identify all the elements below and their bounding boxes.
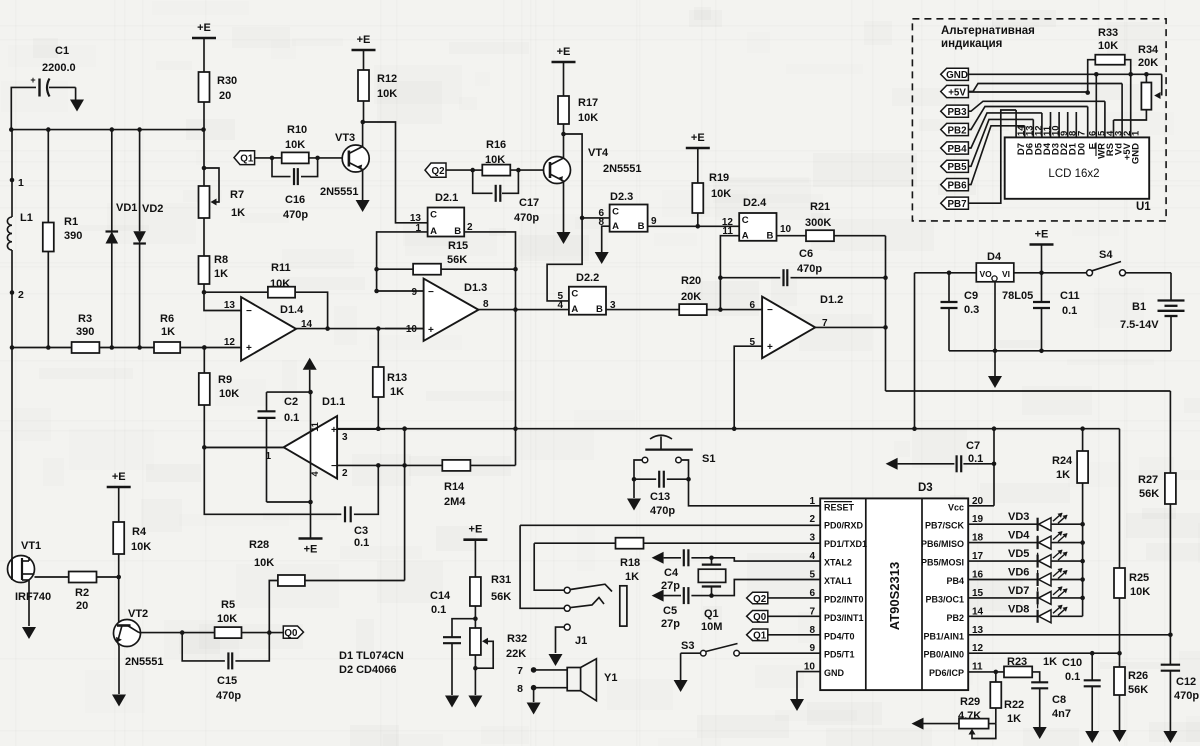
svg-text:10M: 10M xyxy=(701,621,722,633)
svg-text:U1: U1 xyxy=(1136,201,1151,213)
svg-text:D2.1: D2.1 xyxy=(435,192,458,204)
svg-text:56K: 56K xyxy=(1139,488,1159,500)
svg-text:R27: R27 xyxy=(1138,474,1158,486)
svg-text:10K: 10K xyxy=(254,557,274,569)
svg-text:J1: J1 xyxy=(575,635,587,647)
svg-text:R23: R23 xyxy=(1007,656,1027,668)
svg-text:R15: R15 xyxy=(448,240,468,252)
svg-text:10K: 10K xyxy=(377,88,397,100)
svg-text:R10: R10 xyxy=(287,124,307,136)
svg-text:D3: D3 xyxy=(918,482,933,494)
svg-text:XTAL1: XTAL1 xyxy=(824,576,852,586)
svg-text:1K: 1K xyxy=(625,571,639,583)
svg-text:C3: C3 xyxy=(354,525,368,537)
svg-text:PD4/T0: PD4/T0 xyxy=(824,631,855,641)
svg-text:R25: R25 xyxy=(1129,572,1149,584)
svg-text:C: C xyxy=(612,207,619,218)
svg-text:R2: R2 xyxy=(75,587,89,599)
svg-text:PB3/OC1: PB3/OC1 xyxy=(925,594,964,604)
svg-text:D0: D0 xyxy=(1076,143,1087,155)
svg-text:4.7K: 4.7K xyxy=(958,710,981,722)
svg-text:2200.0: 2200.0 xyxy=(42,62,76,74)
svg-text:B: B xyxy=(638,221,645,232)
svg-text:LCD 16x2: LCD 16x2 xyxy=(1048,168,1099,180)
svg-text:PD2/INT0: PD2/INT0 xyxy=(824,594,864,604)
svg-text:13: 13 xyxy=(224,300,236,311)
svg-text:PB2: PB2 xyxy=(948,125,968,136)
svg-text:0.1: 0.1 xyxy=(1062,305,1077,317)
svg-text:2N5551: 2N5551 xyxy=(320,186,359,198)
svg-text:10: 10 xyxy=(780,224,792,235)
svg-text:10K: 10K xyxy=(711,188,731,200)
svg-text:A: A xyxy=(612,221,619,232)
svg-text:27p: 27p xyxy=(661,618,680,630)
svg-text:+: + xyxy=(331,425,337,436)
svg-text:Q1: Q1 xyxy=(753,631,767,642)
svg-text:1: 1 xyxy=(809,496,815,507)
svg-text:GND: GND xyxy=(1131,143,1142,164)
svg-text:PB7: PB7 xyxy=(948,199,968,210)
svg-text:12: 12 xyxy=(224,337,236,348)
svg-text:10K: 10K xyxy=(578,112,598,124)
svg-text:+: + xyxy=(428,325,434,336)
svg-text:R30: R30 xyxy=(217,75,237,87)
svg-text:300K: 300K xyxy=(805,217,831,229)
svg-text:PB4: PB4 xyxy=(946,576,964,586)
svg-text:10K: 10K xyxy=(1098,40,1118,52)
svg-text:1K: 1K xyxy=(1043,656,1057,668)
svg-text:4: 4 xyxy=(310,471,320,476)
svg-text:7: 7 xyxy=(517,665,523,677)
svg-text:+5V: +5V xyxy=(948,87,966,98)
svg-text:20: 20 xyxy=(76,600,88,612)
svg-text:1: 1 xyxy=(1131,130,1142,136)
svg-text:Q1: Q1 xyxy=(704,608,719,620)
svg-text:1K: 1K xyxy=(214,268,228,280)
svg-text:PB2: PB2 xyxy=(946,613,964,623)
svg-text:C10: C10 xyxy=(1062,657,1082,669)
svg-text:L1: L1 xyxy=(20,212,33,224)
svg-text:0.1: 0.1 xyxy=(1065,671,1080,683)
svg-text:C15: C15 xyxy=(217,675,237,687)
svg-text:VD6: VD6 xyxy=(1008,567,1029,579)
svg-text:VD4: VD4 xyxy=(1008,530,1030,542)
svg-text:IRF740: IRF740 xyxy=(15,591,51,603)
svg-text:8: 8 xyxy=(517,683,523,695)
svg-text:B: B xyxy=(454,226,461,237)
svg-text:10K: 10K xyxy=(219,388,239,400)
svg-text:R6: R6 xyxy=(160,313,174,325)
svg-text:1: 1 xyxy=(18,177,24,189)
svg-text:RESET: RESET xyxy=(824,502,855,512)
svg-text:PB6: PB6 xyxy=(948,180,968,191)
svg-text:D2.2: D2.2 xyxy=(576,272,599,284)
svg-text:8: 8 xyxy=(598,217,604,228)
svg-text:PD0/RXD: PD0/RXD xyxy=(824,521,864,531)
svg-text:20K: 20K xyxy=(1138,57,1158,69)
svg-text:7: 7 xyxy=(1076,131,1087,136)
svg-text:C9: C9 xyxy=(964,290,978,302)
svg-text:R34: R34 xyxy=(1138,44,1159,56)
svg-text:−: − xyxy=(246,306,252,317)
svg-text:11: 11 xyxy=(972,662,983,673)
svg-text:PB7/SCK: PB7/SCK xyxy=(925,521,965,531)
svg-text:B: B xyxy=(596,304,603,315)
svg-text:VD5: VD5 xyxy=(1008,548,1029,560)
svg-text:20: 20 xyxy=(219,90,231,102)
svg-text:56K: 56K xyxy=(447,254,467,266)
svg-text:2: 2 xyxy=(809,514,815,525)
svg-text:R26: R26 xyxy=(1128,670,1148,682)
svg-text:+E: +E xyxy=(197,22,211,34)
svg-text:D2.4: D2.4 xyxy=(743,197,767,209)
svg-text:0.3: 0.3 xyxy=(964,304,979,316)
svg-text:PB5: PB5 xyxy=(948,162,968,173)
svg-text:56K: 56K xyxy=(491,591,511,603)
svg-text:7.5-14V: 7.5-14V xyxy=(1120,319,1159,331)
svg-text:C: C xyxy=(430,210,437,221)
svg-text:10K: 10K xyxy=(270,278,290,290)
svg-text:S4: S4 xyxy=(1099,249,1113,261)
svg-text:+E: +E xyxy=(691,132,705,144)
svg-text:R8: R8 xyxy=(214,254,228,266)
svg-text:Q0: Q0 xyxy=(284,628,298,639)
svg-text:R24: R24 xyxy=(1052,455,1073,467)
svg-text:56K: 56K xyxy=(1128,684,1148,696)
svg-text:+: + xyxy=(246,343,252,354)
svg-text:390: 390 xyxy=(64,230,82,242)
svg-text:PB0/AIN0: PB0/AIN0 xyxy=(923,650,964,660)
svg-text:470p: 470p xyxy=(650,505,675,517)
svg-text:2N5551: 2N5551 xyxy=(603,163,642,175)
svg-text:0.1: 0.1 xyxy=(354,537,369,549)
svg-text:10K: 10K xyxy=(131,541,151,553)
svg-text:+E: +E xyxy=(112,471,126,483)
svg-text:1K: 1K xyxy=(161,326,175,338)
svg-text:8: 8 xyxy=(483,299,489,310)
svg-text:3: 3 xyxy=(809,533,815,544)
svg-text:Альтернативная: Альтернативная xyxy=(941,25,1035,37)
svg-text:R17: R17 xyxy=(578,97,598,109)
svg-text:78L05: 78L05 xyxy=(1002,290,1033,302)
svg-text:VD2: VD2 xyxy=(142,203,163,215)
svg-text:C16: C16 xyxy=(285,194,305,206)
svg-text:R13: R13 xyxy=(387,372,407,384)
svg-text:VO: VO xyxy=(980,269,993,279)
svg-text:20K: 20K xyxy=(681,291,701,303)
svg-text:D2 CD4066: D2 CD4066 xyxy=(339,664,396,676)
svg-text:PD1/TXD1: PD1/TXD1 xyxy=(824,539,867,549)
svg-text:GND: GND xyxy=(824,668,845,678)
svg-text:C: C xyxy=(571,289,578,300)
svg-text:0.1: 0.1 xyxy=(284,412,299,424)
svg-text:VT1: VT1 xyxy=(21,540,41,552)
svg-text:VT3: VT3 xyxy=(335,132,355,144)
svg-text:9: 9 xyxy=(411,287,417,298)
svg-text:R12: R12 xyxy=(377,73,397,85)
svg-text:PD3/INT1: PD3/INT1 xyxy=(824,613,864,623)
svg-text:C2: C2 xyxy=(284,396,298,408)
svg-text:GND: GND xyxy=(946,70,968,81)
svg-text:Y1: Y1 xyxy=(604,672,617,684)
svg-text:1K: 1K xyxy=(1007,713,1021,725)
svg-text:R16: R16 xyxy=(486,139,506,151)
svg-text:+E: +E xyxy=(304,544,318,556)
svg-text:2: 2 xyxy=(342,468,348,479)
svg-text:R18: R18 xyxy=(620,557,640,569)
svg-text:D1.1: D1.1 xyxy=(322,396,345,408)
svg-text:470p: 470p xyxy=(283,209,308,221)
svg-text:470p: 470p xyxy=(514,212,539,224)
svg-text:VT4: VT4 xyxy=(588,147,609,159)
svg-text:D1.2: D1.2 xyxy=(820,294,843,306)
svg-text:Q2: Q2 xyxy=(753,594,767,605)
svg-text:10: 10 xyxy=(406,324,418,335)
svg-text:B1: B1 xyxy=(1132,301,1146,313)
svg-text:PB5/MOSI: PB5/MOSI xyxy=(921,558,964,568)
svg-text:Q2: Q2 xyxy=(431,166,445,177)
svg-text:C11: C11 xyxy=(1060,290,1080,302)
svg-text:C7: C7 xyxy=(966,440,980,452)
svg-text:PB1/AIN1: PB1/AIN1 xyxy=(923,631,964,641)
svg-text:D4: D4 xyxy=(987,251,1002,263)
svg-text:индикация: индикация xyxy=(941,38,1002,50)
svg-text:10K: 10K xyxy=(485,154,505,166)
svg-text:R9: R9 xyxy=(218,374,232,386)
svg-text:2M4: 2M4 xyxy=(444,496,466,508)
svg-text:2N5551: 2N5551 xyxy=(125,656,164,668)
svg-text:PD6/ICP: PD6/ICP xyxy=(929,668,964,678)
svg-text:1: 1 xyxy=(265,451,271,462)
svg-text:S1: S1 xyxy=(702,453,715,465)
svg-text:+E: +E xyxy=(357,34,371,46)
svg-text:+: + xyxy=(767,342,773,353)
svg-text:C14: C14 xyxy=(430,590,451,602)
svg-text:D1.4: D1.4 xyxy=(280,304,304,316)
svg-text:A: A xyxy=(571,304,578,315)
svg-text:R33: R33 xyxy=(1098,27,1118,39)
svg-text:PB6/MISO: PB6/MISO xyxy=(921,539,964,549)
svg-text:XTAL2: XTAL2 xyxy=(824,558,852,568)
svg-text:4: 4 xyxy=(557,300,563,311)
svg-text:R4: R4 xyxy=(132,526,147,538)
svg-text:2: 2 xyxy=(18,289,24,301)
svg-text:470p: 470p xyxy=(797,263,822,275)
svg-text:C5: C5 xyxy=(663,605,677,617)
svg-text:10K: 10K xyxy=(1130,586,1150,598)
svg-text:10K: 10K xyxy=(285,139,305,151)
svg-text:3: 3 xyxy=(342,432,348,443)
svg-text:R5: R5 xyxy=(221,599,235,611)
svg-text:R1: R1 xyxy=(64,216,78,228)
svg-text:C13: C13 xyxy=(650,491,670,503)
svg-text:−: − xyxy=(331,461,337,472)
svg-text:R20: R20 xyxy=(681,275,701,287)
svg-text:C17: C17 xyxy=(519,197,539,209)
svg-text:4n7: 4n7 xyxy=(1052,708,1071,720)
svg-text:VD3: VD3 xyxy=(1008,511,1029,523)
svg-text:VT2: VT2 xyxy=(128,608,148,620)
svg-text:C6: C6 xyxy=(799,248,813,260)
svg-text:R29: R29 xyxy=(960,696,980,708)
svg-text:1K: 1K xyxy=(390,386,404,398)
svg-text:0.1: 0.1 xyxy=(968,453,983,465)
svg-text:22K: 22K xyxy=(506,648,526,660)
svg-text:+E: +E xyxy=(1035,229,1049,241)
svg-text:0.1: 0.1 xyxy=(431,604,446,616)
svg-text:470p: 470p xyxy=(1174,690,1199,702)
svg-text:+: + xyxy=(30,75,35,85)
svg-text:1K: 1K xyxy=(231,207,245,219)
svg-text:+E: +E xyxy=(469,524,483,536)
svg-text:R31: R31 xyxy=(491,574,511,586)
svg-text:D1.3: D1.3 xyxy=(464,282,487,294)
svg-text:11: 11 xyxy=(310,422,320,432)
svg-text:VI: VI xyxy=(1002,269,1010,279)
svg-text:C4: C4 xyxy=(664,567,679,579)
svg-text:VD7: VD7 xyxy=(1008,585,1029,597)
svg-text:R7: R7 xyxy=(230,189,244,201)
svg-text:470p: 470p xyxy=(216,690,241,702)
svg-text:R19: R19 xyxy=(709,172,729,184)
svg-text:27p: 27p xyxy=(661,580,680,592)
svg-text:PB3: PB3 xyxy=(948,107,968,118)
svg-text:−: − xyxy=(767,305,773,316)
svg-text:R22: R22 xyxy=(1004,699,1024,711)
svg-text:R3: R3 xyxy=(78,313,92,325)
svg-text:C8: C8 xyxy=(1052,694,1066,706)
svg-text:R28: R28 xyxy=(249,539,269,551)
svg-text:A: A xyxy=(430,226,437,237)
svg-text:PD5/T1: PD5/T1 xyxy=(824,650,855,660)
svg-text:1K: 1K xyxy=(1056,469,1070,481)
svg-text:R14: R14 xyxy=(444,481,465,493)
svg-text:−: − xyxy=(428,287,434,298)
svg-text:C1: C1 xyxy=(55,45,69,57)
svg-text:9: 9 xyxy=(651,216,657,227)
svg-text:R32: R32 xyxy=(507,633,527,645)
svg-text:Q0: Q0 xyxy=(753,612,767,623)
svg-text:C: C xyxy=(742,215,749,226)
svg-text:Vcc: Vcc xyxy=(948,502,964,512)
svg-text:390: 390 xyxy=(76,326,94,338)
svg-text:D2.3: D2.3 xyxy=(610,191,633,203)
svg-text:S3: S3 xyxy=(681,640,694,652)
svg-text:B: B xyxy=(767,230,774,241)
svg-text:R21: R21 xyxy=(810,201,830,213)
svg-text:VD1: VD1 xyxy=(116,202,137,214)
svg-text:AT90S2313: AT90S2313 xyxy=(887,562,902,630)
svg-text:6: 6 xyxy=(749,300,755,311)
svg-text:Q1: Q1 xyxy=(240,153,254,164)
svg-text:PB4: PB4 xyxy=(948,144,968,155)
svg-text:VD8: VD8 xyxy=(1008,603,1029,615)
svg-text:10K: 10K xyxy=(217,613,237,625)
svg-text:D1 TL074CN: D1 TL074CN xyxy=(339,650,404,662)
svg-text:A: A xyxy=(742,230,749,241)
svg-text:+E: +E xyxy=(557,46,571,58)
svg-text:R11: R11 xyxy=(271,262,291,274)
svg-text:C12: C12 xyxy=(1176,676,1196,688)
